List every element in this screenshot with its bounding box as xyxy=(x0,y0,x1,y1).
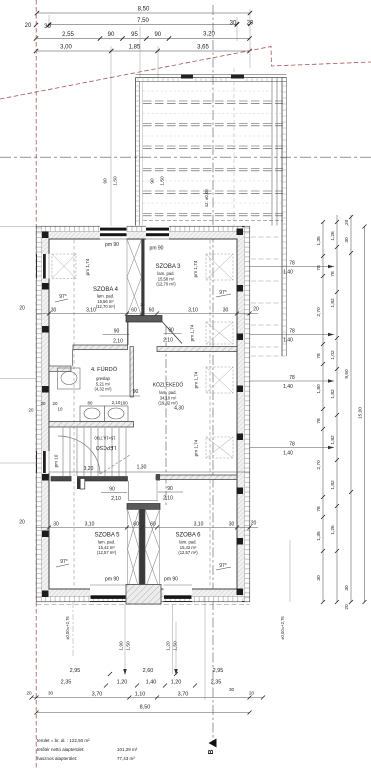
roof window X-box right wall 4 xyxy=(206,437,233,458)
svg-text:2,70: 2,70 xyxy=(316,307,322,317)
svg-text:pm 1,74: pm 1,74 xyxy=(194,371,199,388)
svg-text:pm 90: pm 90 xyxy=(150,246,164,252)
svg-text:1,26: 1,26 xyxy=(330,525,336,535)
svg-text:2,95: 2,95 xyxy=(70,668,81,674)
svg-text:97°: 97° xyxy=(59,294,67,300)
bathroom sink bowl xyxy=(61,372,77,385)
svg-text:2,95: 2,95 xyxy=(213,668,224,674)
svg-text:SZOBA 3: SZOBA 3 xyxy=(155,264,181,270)
svg-text:1,50: 1,50 xyxy=(113,176,119,186)
svg-text:1,40: 1,40 xyxy=(283,338,293,344)
svg-text:30: 30 xyxy=(229,687,235,692)
ridge dash-dot line mid corridor xyxy=(165,326,167,505)
svg-text:20: 20 xyxy=(253,307,259,313)
side deck bottom dashed xyxy=(251,355,287,357)
svg-text:1,40: 1,40 xyxy=(146,680,157,686)
terrace border left double line xyxy=(135,78,137,226)
svg-text:1,26: 1,26 xyxy=(330,231,336,241)
svg-text:30: 30 xyxy=(230,21,237,27)
side deck plank lines right strip xyxy=(251,237,287,356)
svg-text:30: 30 xyxy=(41,401,46,406)
bathroom door jamb line xyxy=(72,350,74,367)
svg-text:hasznos alapterület:: hasznos alapterület: xyxy=(37,756,77,761)
dimension row 3,00/1,85/3,65 xyxy=(36,50,250,52)
roof window X-box right wall 3 xyxy=(206,367,233,393)
svg-text:20: 20 xyxy=(26,691,32,696)
right dim chain line 3 xyxy=(350,215,352,602)
outer wall inner face xyxy=(49,239,237,589)
interior dim line row upper xyxy=(37,314,259,528)
terrace border top double line xyxy=(136,75,287,356)
svg-text:8,50: 8,50 xyxy=(140,705,151,711)
timber posts left wall xyxy=(42,229,243,598)
partition wall szoba3 / közlekedő xyxy=(157,347,237,352)
svg-text:3,10: 3,10 xyxy=(194,522,204,528)
terrace border ladder ticks top xyxy=(136,78,287,351)
terrace border ladder ticks left xyxy=(136,86,140,221)
svg-text:80: 80 xyxy=(88,401,93,406)
svg-text:20: 20 xyxy=(247,21,254,27)
svg-text:pm 90: pm 90 xyxy=(105,242,119,248)
bathroom sink counter xyxy=(58,368,81,389)
extension line x158 xyxy=(157,46,159,78)
svg-text:1,50: 1,50 xyxy=(126,641,132,651)
bottom dim row 2,95/2,60/2,95 xyxy=(70,668,224,674)
stair hall door leaf xyxy=(77,479,80,490)
svg-text:15,56 m²: 15,56 m² xyxy=(97,299,114,304)
left wall window 2 stairwell opening xyxy=(37,451,50,473)
roof window X-box right wall 1 xyxy=(206,254,233,280)
svg-text:1,30: 1,30 xyxy=(137,465,147,471)
svg-text:lam. pad.: lam. pad. xyxy=(98,540,115,545)
svg-text:90: 90 xyxy=(108,32,115,38)
door leaf szoba3 diagonal xyxy=(162,322,182,344)
svg-text:30: 30 xyxy=(48,691,54,696)
svg-text:90: 90 xyxy=(133,389,139,395)
roof window X-box right wall 2 xyxy=(206,322,233,344)
shaft footing block xyxy=(126,585,161,605)
svg-text:tetőtér nettó alapterület:: tetőtér nettó alapterület: xyxy=(37,747,85,752)
svg-text:3,70: 3,70 xyxy=(178,692,189,698)
svg-text:78: 78 xyxy=(316,418,322,424)
svg-text:lam. pad.: lam. pad. xyxy=(179,540,196,545)
interior dim ticks xyxy=(47,312,252,530)
svg-text:30: 30 xyxy=(344,237,350,243)
svg-text:30: 30 xyxy=(44,24,51,30)
svg-text:1,50: 1,50 xyxy=(160,176,166,186)
svg-text:101,29 m²: 101,29 m² xyxy=(117,747,138,752)
svg-text:1,40: 1,40 xyxy=(283,270,293,276)
bottom dim line 8,50 xyxy=(37,712,250,714)
right chain rotated texts column1 xyxy=(316,219,364,609)
svg-text:pm 1,74: pm 1,74 xyxy=(85,258,90,275)
svg-text:2,60: 2,60 xyxy=(143,668,154,674)
svg-text:(4,32 m²): (4,32 m²) xyxy=(95,387,113,392)
right chain ticks xyxy=(321,215,367,604)
svg-text:,20: ,20 xyxy=(344,219,350,226)
svg-text:lam. pad.: lam. pad. xyxy=(159,390,176,395)
svg-text:95: 95 xyxy=(131,32,138,38)
red roof edge diagonal xyxy=(0,47,371,100)
central shaft lower wall xyxy=(139,510,145,590)
svg-text:KÖZLEKEDŐ: KÖZLEKEDŐ xyxy=(153,382,184,389)
shaft cap wall lower xyxy=(127,504,160,510)
central shaft lower X-brace right xyxy=(145,510,159,590)
extension line x250 xyxy=(249,9,251,68)
svg-text:9,50: 9,50 xyxy=(344,369,350,379)
rotated dim pair 1 xyxy=(119,641,179,651)
svg-text:3,10: 3,10 xyxy=(188,308,198,314)
svg-text:90: 90 xyxy=(103,178,109,184)
dimension tick marks top rows xyxy=(34,11,252,53)
rotated sill labels pm 1,74 xyxy=(54,258,199,467)
svg-text:1,40: 1,40 xyxy=(283,384,293,390)
svg-text:2,35: 2,35 xyxy=(61,680,72,686)
callout arrowheads xyxy=(328,265,334,450)
svg-text:B: B xyxy=(208,749,215,754)
svg-text:90: 90 xyxy=(154,32,161,38)
svg-text:(12,57 m²): (12,57 m²) xyxy=(178,550,198,555)
svg-text:2,35: 2,35 xyxy=(211,680,222,686)
roof window X-box szoba4 left xyxy=(52,254,76,279)
svg-text:5,21 m²: 5,21 m² xyxy=(96,381,111,386)
interior dim texts row upper xyxy=(19,302,259,528)
svg-text:4,30: 4,30 xyxy=(174,406,184,412)
svg-text:78: 78 xyxy=(330,271,336,277)
svg-text:60: 60 xyxy=(133,522,139,528)
svg-text:3,00: 3,00 xyxy=(60,45,72,51)
svg-text:20: 20 xyxy=(249,691,255,696)
svg-text:78: 78 xyxy=(316,506,322,512)
svg-text:pm 1,74: pm 1,74 xyxy=(193,260,198,277)
svg-text:3,65: 3,65 xyxy=(197,45,209,51)
svg-text:20: 20 xyxy=(29,408,34,413)
svg-text:78: 78 xyxy=(316,265,322,271)
svg-text:15×16,7/30: 15×16,7/30 xyxy=(94,436,116,441)
svg-text:77,43 m²: 77,43 m² xyxy=(117,756,135,761)
svg-text:1,50: 1,50 xyxy=(173,641,179,651)
svg-text:greslap: greslap xyxy=(96,376,110,381)
left wall window 1 opening xyxy=(37,254,50,279)
svg-text:78: 78 xyxy=(316,353,322,359)
svg-text:1,40: 1,40 xyxy=(283,451,293,457)
svg-text:2,10: 2,10 xyxy=(113,339,123,345)
wall insulation layer lines xyxy=(37,227,250,602)
svg-text:lam. pad.: lam. pad. xyxy=(157,271,174,276)
shaft cap wall upper xyxy=(126,316,162,323)
bottom wall window 2 opening xyxy=(164,585,193,602)
stairs walk arc xyxy=(58,436,100,474)
bottom extension lines xyxy=(73,540,290,700)
window callout arrows right xyxy=(250,266,334,268)
svg-text:90: 90 xyxy=(150,178,156,184)
area summary text block xyxy=(37,738,138,761)
top wall window 1 opening xyxy=(100,226,127,240)
svg-text:20: 20 xyxy=(25,23,32,29)
svg-text:30: 30 xyxy=(51,308,57,314)
terrace sleeper bar 2 xyxy=(231,75,244,79)
stair hall door gap xyxy=(72,476,78,482)
svg-text:1,80: 1,80 xyxy=(316,384,322,394)
svg-text:78: 78 xyxy=(289,375,295,381)
red property line left vertical xyxy=(35,0,37,768)
central shaft upper X-braced duct xyxy=(127,240,142,316)
svg-text:20: 20 xyxy=(19,306,25,312)
terrace inner left line xyxy=(142,82,144,226)
svg-text:1,90: 1,90 xyxy=(119,641,125,651)
terrace sleeper bar 1 xyxy=(181,75,193,79)
svg-text:78: 78 xyxy=(289,261,295,267)
svg-text:±0,00=+2,76: ±0,00=+2,76 xyxy=(280,616,285,640)
svg-text:78: 78 xyxy=(289,329,295,335)
dimension texts top rows xyxy=(25,7,254,51)
door dim szoba4 xyxy=(109,328,174,503)
eave dashed line below building xyxy=(37,604,250,606)
svg-text:90: 90 xyxy=(168,328,174,334)
door leaf szoba4 xyxy=(127,322,129,345)
svg-text:100: 100 xyxy=(120,401,128,406)
central shaft upper wall line xyxy=(142,240,145,316)
svg-text:3,20: 3,20 xyxy=(84,466,94,472)
svg-text:30: 30 xyxy=(229,522,235,528)
corridor lower right wall jamb xyxy=(156,474,160,481)
svg-text:3,20: 3,20 xyxy=(203,32,215,38)
svg-text:3,70: 3,70 xyxy=(92,692,103,698)
svg-text:1,20: 1,20 xyxy=(171,680,182,686)
svg-text:2,10: 2,10 xyxy=(111,496,121,502)
dashed vertical x234 xyxy=(233,68,235,226)
svg-text:20: 20 xyxy=(53,401,58,406)
svg-text:sz: ±0,00: sz: ±0,00 xyxy=(204,189,209,207)
svg-text:15,56 m²: 15,56 m² xyxy=(158,276,175,281)
svg-text:pm 90: pm 90 xyxy=(105,577,119,583)
terrace intermediate joist lines faint xyxy=(143,91,283,203)
extension line x237 xyxy=(236,17,238,41)
headroom dashed line left x74 xyxy=(73,240,75,588)
left margin leader lines xyxy=(0,227,37,464)
svg-text:34,10 m²: 34,10 m² xyxy=(160,395,177,400)
svg-text:30: 30 xyxy=(316,575,322,581)
svg-text:90: 90 xyxy=(167,486,173,492)
svg-text:30: 30 xyxy=(344,585,350,591)
dimension row 7,50 xyxy=(49,24,237,26)
svg-text:3,10: 3,10 xyxy=(85,522,95,528)
svg-text:30: 30 xyxy=(223,308,229,314)
central shaft lower X-brace left xyxy=(128,510,160,590)
svg-text:1,82: 1,82 xyxy=(330,480,336,490)
svg-text:60: 60 xyxy=(149,308,155,314)
svg-text:LÉPCSŐ: LÉPCSŐ xyxy=(96,444,116,451)
headroom dashed line right x210 xyxy=(209,240,211,588)
svg-text:1,02: 1,02 xyxy=(330,350,336,360)
bottom wall window 1 opening xyxy=(90,585,126,602)
right dim overall line 15,00 xyxy=(364,227,366,603)
svg-text:pm 1,74: pm 1,74 xyxy=(190,324,195,341)
svg-text:2,70: 2,70 xyxy=(316,460,322,470)
terrace border right lines xyxy=(271,78,273,226)
svg-text:15,42 m²: 15,42 m² xyxy=(180,545,197,550)
svg-text:3,10: 3,10 xyxy=(86,308,96,314)
bottom dim row 2,35/1,20/1,40/1,20/2,35 xyxy=(26,680,221,696)
stair dim texts xyxy=(29,400,185,472)
room label szoba4 xyxy=(91,264,201,539)
stairs walk line xyxy=(100,455,130,474)
svg-text:(12,70 m²): (12,70 m²) xyxy=(156,282,176,287)
svg-text:1,10: 1,10 xyxy=(135,692,146,698)
svg-text:(12,70 m²): (12,70 m²) xyxy=(96,304,116,309)
svg-text:terület = br. al. : 122,50 m²: terület = br. al. : 122,50 m² xyxy=(37,738,90,743)
right dim chain line 2 xyxy=(336,215,338,602)
slope arrows xyxy=(55,294,231,570)
bottom dim line 3,70/1,10/3,70 xyxy=(32,697,264,699)
svg-text:1,82: 1,82 xyxy=(330,435,336,445)
svg-text:10: 10 xyxy=(58,407,63,412)
terrace border ladder ticks right xyxy=(282,86,287,350)
extension line x140 xyxy=(139,27,141,78)
svg-text:60: 60 xyxy=(131,308,137,314)
svg-text:1,82: 1,82 xyxy=(330,389,336,399)
section line A horizontal dash-dot xyxy=(0,156,371,158)
svg-text:lam. pad.: lam. pad. xyxy=(97,294,114,299)
svg-text:2,55: 2,55 xyxy=(62,32,74,38)
svg-text:±0,00=+2,76: ±0,00=+2,76 xyxy=(65,616,70,640)
partition wall szoba4 / fürdő xyxy=(73,345,128,350)
bottom arrowheads xyxy=(123,669,178,675)
bathroom niche stub wall xyxy=(49,366,71,372)
wc fixture 1 xyxy=(80,406,128,422)
svg-text:2,10: 2,10 xyxy=(163,496,173,502)
room sub texts xyxy=(94,271,198,555)
svg-text:78: 78 xyxy=(289,442,295,448)
window sill labels pm 90 top xyxy=(105,242,178,583)
svg-text:1,20: 1,20 xyxy=(166,641,172,651)
svg-text:1,85: 1,85 xyxy=(129,45,141,51)
bottom dim ticks xyxy=(30,672,266,715)
outer wall outer face xyxy=(37,227,250,602)
svg-text:30: 30 xyxy=(53,522,59,528)
svg-text:1,35: 1,35 xyxy=(316,531,322,541)
svg-text:pm 90: pm 90 xyxy=(164,577,178,583)
svg-text:90: 90 xyxy=(114,329,120,335)
bathroom bottom wall xyxy=(49,422,134,428)
svg-text:15,00: 15,00 xyxy=(358,407,364,419)
section line B dash-dot xyxy=(212,5,214,745)
svg-text:8,50: 8,50 xyxy=(138,7,150,13)
extension line x49 xyxy=(48,15,50,27)
svg-text:2,10: 2,10 xyxy=(163,338,173,344)
stairs treads xyxy=(63,428,126,476)
svg-text:(12,57 m²): (12,57 m²) xyxy=(97,550,117,555)
svg-text:20: 20 xyxy=(140,302,145,307)
stair opening edge lines xyxy=(129,481,159,501)
svg-text:SZOBA 5: SZOBA 5 xyxy=(94,533,120,539)
svg-text:SZOBA 4: SZOBA 4 xyxy=(93,287,119,293)
svg-text:7,50: 7,50 xyxy=(137,18,149,24)
door dim underlines xyxy=(100,334,184,493)
svg-text:97°: 97° xyxy=(60,559,68,565)
roof slope labels 97deg xyxy=(59,290,227,569)
svg-text:1,35: 1,35 xyxy=(316,236,322,246)
timber posts right wall xyxy=(237,229,244,236)
extension line x111 xyxy=(110,46,112,227)
bathroom right wall xyxy=(130,347,134,398)
svg-text:20: 20 xyxy=(344,604,350,610)
svg-text:pm 10: pm 10 xyxy=(54,454,59,467)
svg-text:4. FÜRDŐ: 4. FÜRDŐ xyxy=(91,366,118,373)
dimension row 8,50 top xyxy=(37,12,250,14)
corridor wall lower right xyxy=(156,475,237,480)
svg-text:20: 20 xyxy=(19,520,25,526)
svg-text:1,20: 1,20 xyxy=(117,680,128,686)
top wall window 2 opening xyxy=(146,226,169,240)
svg-text:60: 60 xyxy=(150,522,156,528)
svg-text:90: 90 xyxy=(109,487,115,493)
terrace deck plank lines (double dashed) xyxy=(143,101,283,221)
svg-text:pm 1,74: pm 1,74 xyxy=(194,439,199,456)
right dim chain line 1 xyxy=(250,215,365,602)
section marker B triangle xyxy=(209,739,217,748)
wc fixture 2 xyxy=(104,406,128,422)
svg-text:15,42 m²: 15,42 m² xyxy=(98,545,115,550)
svg-text:SZOBA 6: SZOBA 6 xyxy=(175,533,201,539)
window callout texts 78 / 1,40 xyxy=(283,261,295,457)
outer wall band hatched xyxy=(37,227,250,602)
terrace rotated dims left outside xyxy=(103,176,210,207)
dimension row 2,55/90/95/90/3,20 xyxy=(36,38,250,40)
under-stair wall xyxy=(51,477,128,482)
svg-text:20: 20 xyxy=(251,521,257,527)
svg-text:1,82: 1,82 xyxy=(330,298,336,308)
